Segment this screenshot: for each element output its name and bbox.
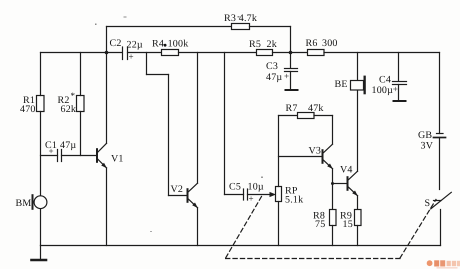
resistor R1 [20,95,44,115]
wire V3 base wire [279,156,322,158]
wire top rail right segment [250,26,291,28]
transistor V1 [96,143,124,168]
wire V4 base wire [333,183,347,185]
wire main line R6 to right corner [324,52,440,54]
wire V2 emitter drop [197,208,199,246]
svg-text:10µ: 10µ [248,182,264,193]
wire top rail riser from node A [106,27,108,54]
switch S [425,192,452,209]
capacitor C3 [266,53,298,91]
capacitor C5 [229,182,264,204]
wire main line C2 to R4 [128,52,162,54]
resistor R6 [306,38,338,56]
wire battery to switch [439,138,441,190]
svg-text:47µ: 47µ [60,140,76,151]
svg-text:R6: R6 [306,38,318,49]
wire R2 bottom lead to V1 base node [80,112,82,156]
wire R2 top lead [80,53,82,96]
ground [32,246,47,261]
svg-text:R7: R7 [286,103,298,114]
svg-text:*: * [71,91,76,101]
svg-text:62k: 62k [61,104,77,115]
wire top rail drop to node B [290,27,292,53]
wire C5 left lead [225,194,244,196]
svg-text:+: + [284,71,289,81]
linkage dashed line RP to S [226,197,436,259]
svg-text:C4: C4 [379,74,391,85]
wire C1 left lead [41,155,58,157]
node A junction dot [105,51,109,55]
svg-text:100k: 100k [168,39,189,50]
earphone BE [335,76,366,95]
svg-text:BM: BM [16,198,32,209]
wire C1 right lead / V1 base wire [62,155,97,157]
resistor R4 [152,39,188,56]
wire switch bottom lead [440,210,442,246]
svg-text:47k: 47k [308,103,324,114]
wire BE top lead [357,53,359,81]
svg-text:S: S [425,198,431,209]
resistor R9 [340,210,361,231]
svg-text:R5: R5 [249,39,261,50]
svg-text:+: + [393,84,398,94]
wire battery feed down right side [439,53,441,134]
wire V2 base feed drop from main line [146,53,148,75]
wire R7 left lead [279,115,298,117]
resistor R5 [249,39,277,55]
wire RP bottom lead to ground rail [278,202,280,246]
resistor R8 [313,210,336,231]
svg-text:15: 15 [343,219,353,230]
wire R1 top lead [40,53,42,96]
svg-text:5.1k: 5.1k [285,195,303,206]
wire V4 emitter drop to R9 [357,196,359,210]
svg-text:R4: R4 [152,39,164,50]
wire R7 right lead [314,115,333,117]
wire main line left segment [41,52,122,54]
wire top rail left segment [107,26,232,28]
wire main line R4 to R5 [179,52,257,54]
svg-text:C2: C2 [110,38,122,49]
scan speckles (decorative) [95,16,263,232]
wire BM bottom lead [40,209,42,246]
svg-text:BE: BE [335,79,348,90]
wire C5 feed drop from main line [224,53,226,195]
wire R1 bottom lead to mic [40,112,42,197]
svg-text:300: 300 [322,38,338,49]
capacitor C4 [372,53,407,102]
wire ground rail [41,245,441,247]
svg-text:C3: C3 [266,61,278,72]
svg-text:V4: V4 [340,164,353,175]
svg-text:2k: 2k [267,39,277,50]
resistor R3 [224,13,257,30]
wire RP top lead to V3 base node and R7 [278,116,280,187]
capacitor C1 [45,140,76,162]
wire V1 collector riser [106,53,108,144]
svg-text:V3: V3 [309,145,322,156]
node V4 base junction dot [331,182,334,185]
transistor V3 [309,144,333,169]
wire V2 base feed drop [168,75,170,196]
capacitor C2 [110,38,143,62]
decorative watermark [427,260,460,268]
svg-text:R3 4.7k: R3 4.7k [224,13,257,24]
wire V2 base feed jog [147,74,169,76]
svg-text:47µ: 47µ [266,72,282,83]
svg-text:+: + [49,146,54,156]
svg-text:100µ: 100µ [372,85,394,96]
resistor R2 [58,91,85,115]
wire V3 collector riser [332,116,334,145]
svg-text:75: 75 [315,219,325,230]
svg-text:V2: V2 [171,184,184,195]
potentiometer RP [276,186,304,206]
svg-text:C5: C5 [229,182,241,193]
svg-text:3V: 3V [421,141,434,152]
svg-text:470: 470 [20,104,36,115]
wire R8 bottom lead [332,226,334,246]
resistor R7 [286,103,324,118]
wire C5 to RP wiper arrow [248,194,272,196]
svg-text:V1: V1 [111,154,124,165]
wire V4 collector riser to BE [357,90,359,171]
wire main line R5 to R6 [273,52,308,54]
svg-text:22µ: 22µ [127,40,143,51]
wire V2 base lead [169,195,187,197]
transistor V4 [340,164,358,196]
node B junction dot [289,51,293,55]
transistor V2 [171,183,198,208]
battery GB [418,130,446,151]
wire V3 emitter drop to R8 [332,169,334,210]
wire R9 bottom lead [357,226,359,246]
wire V1 emitter drop to ground rail [106,168,108,246]
wire V2 collector riser [197,53,199,184]
microphone BM [16,194,47,210]
